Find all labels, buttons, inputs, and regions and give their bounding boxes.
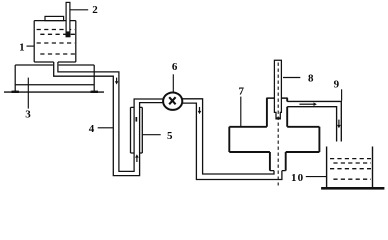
svg-text:1: 1 [19, 41, 25, 53]
label 9 [334, 79, 342, 101]
test section block 7 [229, 98, 319, 171]
svg-text:10: 10 [291, 172, 304, 184]
label 3 [25, 78, 31, 121]
tank T1 lid [45, 16, 64, 20]
svg-text:2: 2 [92, 4, 98, 16]
flow arrow down in pipe 4 [115, 78, 119, 85]
band sides [229, 127, 319, 152]
bench shelf [15, 84, 94, 86]
flow arrow down in pipe 9 [337, 120, 341, 129]
rotameter float [136, 117, 138, 122]
tank 10 water dashes [330, 159, 371, 180]
flow arrow down in pump outlet pipe [198, 107, 202, 114]
socket walls [267, 98, 287, 127]
svg-text:9: 9 [334, 79, 340, 91]
label 10 [291, 172, 327, 184]
svg-text:7: 7 [239, 85, 245, 97]
tank T1 (supply tank) [34, 21, 76, 62]
flow arrow up into rotameter [135, 154, 139, 162]
probe tube 8 [274, 60, 281, 119]
bench feet [12, 91, 19, 93]
pump outlet pipe wall outer [182, 103, 282, 179]
tank 10 (collection tank) [327, 147, 373, 188]
svg-text:3: 3 [25, 109, 31, 121]
socket rim [266, 97, 287, 99]
label 1 [19, 41, 34, 53]
svg-text:6: 6 [172, 61, 178, 73]
pipe 4: outlet pipe wall B (outer) [54, 62, 164, 176]
bench 3 (support table) [15, 65, 94, 92]
outlet pipe to tank 10: bottom wall [287, 107, 336, 142]
pump outlet pipe wall inner [182, 99, 274, 174]
nozzle walls [270, 152, 286, 171]
svg-text:5: 5 [167, 130, 173, 142]
svg-text:8: 8 [308, 73, 314, 85]
bench top [15, 64, 94, 66]
label 7 [239, 85, 245, 126]
label 8 [283, 73, 314, 85]
band top edges [229, 126, 319, 128]
band bottom edges [229, 151, 319, 153]
rotameter 5 (jacket) [131, 107, 143, 153]
tank 10 base [321, 187, 384, 190]
tank T1 water dashes [37, 30, 75, 55]
dashed centerline [277, 63, 279, 186]
flow arrow right in outlet pipe [299, 102, 317, 106]
svg-text:4: 4 [89, 123, 95, 135]
pump U1 (circle with X) [163, 93, 182, 110]
bench left leg [14, 65, 16, 92]
bench right leg [93, 65, 95, 92]
outlet pipe to tank 10: top wall [287, 101, 341, 141]
pipe 4: outlet pipe wall A (inner) tank->rotameter->pump [58, 62, 164, 171]
label 6 [172, 61, 178, 93]
nozzle neck shoulders [270, 170, 286, 172]
label 2 [70, 4, 98, 16]
thermometer 2 [66, 2, 70, 36]
ground line [4, 91, 104, 93]
label 5 [142, 130, 173, 142]
label 4 [89, 123, 113, 135]
